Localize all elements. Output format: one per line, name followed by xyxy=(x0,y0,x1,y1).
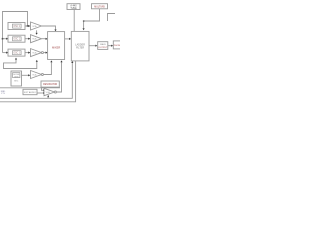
arrow multivib into filter top xyxy=(83,28,85,30)
wire osc2 output xyxy=(25,38,30,40)
arrow filter into boxA xyxy=(95,45,97,47)
wire filter to boxA xyxy=(89,45,96,47)
resonator box xyxy=(41,81,59,87)
svg-text:MULTIVIB: MULTIVIB xyxy=(94,7,105,9)
amp4 triangle xyxy=(31,71,42,79)
junction osc1 output xyxy=(27,25,29,27)
svg-text:OUTPUT: OUTPUT xyxy=(98,47,108,49)
oscillator 2 box xyxy=(8,35,25,42)
svg-text:GEN: GEN xyxy=(14,76,19,78)
svg-text:TUNE: TUNE xyxy=(70,8,77,10)
amp2 triangle xyxy=(31,35,42,43)
wire boxA to boxB xyxy=(108,45,112,47)
arrow into amp3 xyxy=(28,52,30,54)
arrow into osc3 xyxy=(6,52,8,54)
output boxB xyxy=(113,41,121,49)
arrow into amp2 xyxy=(28,38,30,40)
svg-text:OSC 2: OSC 2 xyxy=(13,39,21,41)
wire amp5 to mixer bottom xyxy=(56,61,61,92)
noise source box xyxy=(11,71,22,86)
tuner box top xyxy=(67,4,80,10)
wire amp4 to mixer bottom xyxy=(43,61,51,74)
oscillator 2 inner panel xyxy=(13,37,22,41)
svg-text:SRC: SRC xyxy=(14,81,19,83)
svg-text:VCA: VCA xyxy=(32,38,37,41)
wire sync bus top link xyxy=(3,12,28,53)
wire kbd control line xyxy=(0,86,60,89)
wire ext audio to amp5 xyxy=(37,92,43,94)
svg-text:VCA: VCA xyxy=(32,74,37,77)
svg-text:OSC 3: OSC 3 xyxy=(13,53,21,55)
wire amp3 to mixer xyxy=(43,52,46,54)
wire filter bottom control 1 xyxy=(0,61,72,98)
arrow into amp1 xyxy=(28,25,30,27)
wire osc1 output xyxy=(25,25,30,27)
svg-text:CTL: CTL xyxy=(1,93,6,95)
arrow mixer into filter xyxy=(69,38,71,40)
wire mixer to filter xyxy=(65,38,71,40)
svg-text:PHON: PHON xyxy=(114,45,120,47)
wire bus tap row2 xyxy=(3,38,8,40)
wire kbd drop to amp5 xyxy=(42,88,44,91)
arrow into osc2 xyxy=(6,38,8,40)
junction bus row2 xyxy=(2,38,4,40)
amp1 triangle xyxy=(31,22,42,30)
ladder filter box xyxy=(71,31,89,61)
noise inner panel xyxy=(13,73,20,78)
arrow amp1 into mixer top xyxy=(54,30,56,32)
mixer box xyxy=(48,32,65,60)
svg-text:EXT AUDIO: EXT AUDIO xyxy=(24,91,36,94)
svg-text:VCA: VCA xyxy=(46,91,51,94)
ext audio box xyxy=(23,89,37,94)
wire osc3 output xyxy=(25,52,30,54)
svg-text:VCA: VCA xyxy=(32,25,37,28)
arrow amp1-amp2 stub xyxy=(36,33,38,35)
arrow up into filter bottom xyxy=(71,61,73,63)
wire tuner to filter top xyxy=(73,10,75,32)
amp5 bubble xyxy=(54,91,56,93)
arrow stub amp5 bottom xyxy=(47,95,49,97)
amp3 triangle xyxy=(31,49,42,57)
oscillator 3 inner panel xyxy=(13,51,22,55)
arrow into amp4 xyxy=(28,74,30,76)
wire amp5 bottom stub xyxy=(47,95,49,98)
wire multivib to filter top xyxy=(84,9,100,29)
junction multivib corner xyxy=(83,20,85,22)
svg-text:MAIN: MAIN xyxy=(100,43,106,46)
arrow ext audio into amp5 in2 xyxy=(43,92,45,94)
amp5 triangle xyxy=(44,88,55,95)
wire amp1 to mixer top xyxy=(42,26,56,31)
arrow up into osc3 bottom xyxy=(15,58,17,60)
amp3 bubble xyxy=(41,52,43,54)
svg-text:FILTER: FILTER xyxy=(76,46,84,49)
arrow amp2 into mixer xyxy=(46,38,48,40)
wire amp1 to amp2 stub xyxy=(36,30,38,34)
arrow amp5 up into mixer bottom xyxy=(60,60,62,62)
wire bus tap row3 xyxy=(3,52,8,54)
arrow kbd into amp5 in1 xyxy=(43,89,45,91)
wire noise output xyxy=(22,74,30,76)
wire osc3 control Z path xyxy=(4,59,37,69)
oscillator 1 box xyxy=(8,23,25,30)
svg-text:OSC 1: OSC 1 xyxy=(13,26,21,28)
arrow boxA into boxB xyxy=(111,45,113,47)
wire multivib right jog xyxy=(108,14,116,22)
oscillator 1 inner panel xyxy=(13,24,22,28)
amp4 bubble xyxy=(41,74,43,76)
wire amp2 to mixer xyxy=(42,38,47,40)
multivib box top xyxy=(92,4,108,9)
wire filter bottom control 2 xyxy=(0,61,76,102)
output boxA xyxy=(98,42,108,50)
oscillator 3 box xyxy=(8,49,25,56)
arrow amp4 up into mixer bottom xyxy=(50,60,52,62)
svg-text:RESONATOR: RESONATOR xyxy=(43,83,57,86)
arrow up into amp3 bottom xyxy=(36,60,38,62)
arrow amp3 into mixer xyxy=(46,52,48,54)
svg-text:MIXER: MIXER xyxy=(52,45,60,49)
svg-text:VCA: VCA xyxy=(32,52,37,55)
